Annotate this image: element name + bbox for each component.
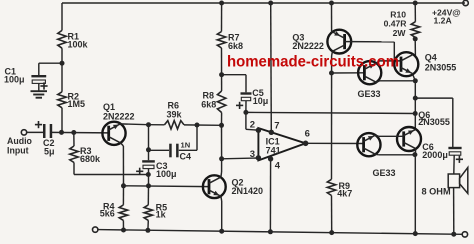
wire: C6 branch [415, 97, 453, 99]
junction: top rail / Q3 emitter [329, 1, 334, 6]
capacitor C3 [142, 160, 155, 162]
wire: Q7 upper lead to Q6 base [376, 135, 379, 136]
resistor R3 [70, 146, 78, 163]
wire: R8 to mid node [221, 113, 223, 126]
wire: input terminal to C2 [27, 131, 43, 133]
junction: feedback node at pin2 branch [243, 110, 248, 115]
junction: C4 riser / mid wire [195, 123, 200, 128]
pin 2 dot of IC1 [256, 128, 261, 133]
junction: Q1 emitter / R4 / Q2 base wire [121, 183, 126, 188]
wire: output column segment [414, 81, 416, 129]
wire: R10 to Q4 collector [414, 39, 416, 57]
junction: rail / emitter column [413, 231, 418, 236]
wire: Q2 emitter to ground rail [220, 196, 223, 201]
wire: Q2 base wire [124, 185, 209, 188]
svg-text:100μ: 100μ [156, 169, 177, 179]
junction: C3 / R5 / Q2 base wire [146, 183, 151, 188]
svg-text:2W: 2W [393, 28, 407, 38]
svg-text:1.2A: 1.2A [434, 16, 452, 26]
svg-text:GE33: GE33 [358, 89, 381, 99]
svg-text:Audio: Audio [7, 136, 33, 146]
svg-text:7: 7 [274, 120, 279, 131]
wire: op-amp output to Q7 base [306, 142, 364, 144]
svg-text:680k: 680k [80, 154, 101, 164]
svg-text:5μ: 5μ [44, 147, 55, 157]
resistor R10 [411, 22, 419, 38]
wire: divider node to C5 [222, 74, 246, 76]
wire: ground bottom rail [98, 230, 462, 235]
wire: node to R4 [122, 186, 124, 205]
pin 3 dot of IC1 [256, 155, 261, 160]
wire: Q3 collector down to R9 column [331, 52, 334, 57]
capacitor C5 [241, 92, 252, 94]
svg-text:1M5: 1M5 [68, 99, 86, 109]
pin 4 dot of IC1 [268, 156, 273, 161]
junction: mid wire / R8 bottom [219, 123, 224, 128]
resistor R8 [217, 91, 225, 113]
wire: R3 bottom elbow [73, 163, 75, 175]
terminal: ground rail left [93, 227, 98, 232]
resistor R6 (horizontal) [165, 121, 185, 129]
svg-text:6k8: 6k8 [201, 99, 216, 109]
junction: rail / pin4 wire [268, 229, 273, 234]
capacitor C6 [448, 147, 461, 149]
junction: output column / C6 branch [413, 96, 418, 101]
wire: C2 to Q1 base [50, 131, 108, 134]
svg-text:2N2222: 2N2222 [103, 111, 135, 121]
wire: C1 top lead [38, 63, 40, 75]
wire: Q6 emitter to node [414, 149, 416, 154]
wire: C4 left lead [149, 149, 170, 151]
svg-text:4: 4 [275, 161, 281, 172]
wire: branch down to C4/C3 [148, 125, 150, 161]
junction: rail / R9 [329, 230, 334, 235]
transistor Q5 GE33 [358, 61, 381, 84]
junction: R3 / C3 node [146, 172, 151, 177]
capacitor C1 [31, 75, 46, 77]
wire: Q4 emitter to output column [413, 75, 415, 81]
polarity + of C2 [35, 124, 42, 126]
svg-text:Input: Input [7, 146, 29, 156]
wire: Q1 collector to mid node [121, 123, 149, 126]
capacitor C2 (series) [43, 124, 46, 138]
junction: top rail / R7 [219, 1, 224, 6]
svg-text:6: 6 [305, 129, 310, 140]
junction: output column / feedback wire [413, 111, 418, 116]
junction: mid wire / C3-C4 branch [146, 122, 151, 127]
wire: +24V top supply rail [62, 2, 465, 4]
terminal: ground rail right [462, 232, 467, 237]
svg-text:100k: 100k [68, 40, 89, 50]
speaker 8 OHM [448, 174, 459, 188]
wire: pin 7 to top rail [270, 3, 273, 132]
svg-text:GE33: GE33 [373, 168, 396, 178]
wire: pin2 drop [245, 112, 247, 129]
junction: Q6/Q7 emitter node [412, 152, 417, 157]
wire: R7 to divider node [221, 48, 223, 91]
capacitor C4 (series) [169, 144, 172, 158]
svg-text:4k7: 4k7 [337, 189, 352, 199]
svg-text:3: 3 [250, 149, 255, 160]
wire: Q5 base wire [332, 72, 365, 74]
wire: C1 to ground [38, 83, 40, 91]
wire: Q1 emitter down [121, 143, 124, 146]
wire: node A to C1 [39, 62, 62, 64]
wire: Q5 upper lead to Q4 base [376, 61, 379, 63]
svg-text:741: 741 [266, 146, 281, 156]
junction: rail / R4 [121, 228, 126, 233]
wire: R5 to ground rail [147, 220, 149, 230]
junction: rail / Q2 emitter [219, 229, 224, 234]
junction: C4 left branch [146, 147, 151, 152]
wire: Q3 base to Q4 base column [351, 41, 394, 43]
svg-text:6k8: 6k8 [228, 41, 243, 51]
wire: C6 to speaker [453, 155, 455, 174]
wire: feedback from output node to pin2 node [246, 112, 415, 113]
wire: top rail to R1 [61, 3, 63, 30]
wire: Q2 collector up to pin3 wire [220, 172, 223, 177]
terminal: +24V supply terminal [463, 0, 468, 5]
resistor R1 [58, 30, 66, 48]
wire: speaker to ground rail [453, 188, 455, 235]
transistor Q4 2N3055 [394, 52, 418, 76]
svg-text:1k: 1k [156, 209, 167, 219]
transistor Q2 2N1420 [203, 175, 226, 198]
svg-text:39k: 39k [167, 109, 183, 119]
polarity + of C1 [40, 85, 47, 87]
junction: Q4 emitter / Q5 lower lead [413, 78, 418, 83]
transistor Q3 2N2222 (mirrored) [327, 30, 351, 54]
wire: R2 to input node [61, 108, 63, 133]
polarity + of C6 [456, 158, 463, 160]
wire: pin 4 to ground rail [269, 159, 271, 232]
svg-text:10μ: 10μ [253, 96, 269, 106]
resistor R2 [58, 92, 66, 108]
svg-text:2N3055: 2N3055 [418, 117, 450, 127]
svg-text:2N3055: 2N3055 [425, 62, 457, 72]
svg-text:0.47R: 0.47R [384, 18, 408, 28]
wire: R6 to C4 right riser [184, 124, 222, 126]
wire: IC1 pin 3 input wire [222, 157, 259, 160]
wire: C5 bottom to feedback node [245, 101, 247, 112]
svg-text:5k6: 5k6 [100, 209, 115, 219]
junction: node A (R1/R2/C1) [60, 61, 65, 66]
wire: R9 to ground rail [331, 196, 333, 233]
wire: top rail to R7 [221, 3, 223, 32]
polarity + of C3 [136, 170, 143, 172]
junction: Q3 column / Q5 base [329, 71, 334, 76]
pin 7 dot of IC1 [269, 130, 274, 135]
junction: top rail / R10 [413, 1, 418, 6]
resistor R7 [217, 32, 225, 49]
ground symbol below C1 [31, 90, 48, 92]
resistor R9 [327, 179, 335, 195]
wire: Q3 emitter to top rail [331, 3, 333, 33]
wire: input node down to R3 [73, 133, 75, 147]
wire: emitter node to ground rail [414, 155, 416, 234]
transistor Q1 2N2222 [102, 122, 125, 145]
svg-text:C4: C4 [180, 151, 192, 161]
junction: R10 bottom / Q4 collector [413, 36, 418, 41]
junction: top rail / IC1 pin7 wire [268, 1, 273, 6]
svg-text:1N: 1N [181, 140, 191, 149]
junction: rail / R5 [145, 228, 150, 233]
svg-text:2N2222: 2N2222 [292, 41, 324, 51]
svg-text:2000μ: 2000μ [422, 150, 448, 160]
svg-text:8 OHM: 8 OHM [422, 186, 451, 196]
svg-text:100μ: 100μ [4, 74, 25, 84]
resistor R4 [119, 205, 127, 221]
wire: C4 right lead and riser [179, 149, 197, 151]
wire: Q7 lower lead to emitter node [376, 153, 379, 156]
junction: rail / speaker [451, 232, 456, 237]
svg-text:homemade-circuits.com: homemade-circuits.com [227, 53, 399, 70]
transistor Q7 GE33 [357, 133, 380, 156]
wire: R1 to node A [61, 48, 63, 92]
op-amp IC1 741 triangle [258, 128, 305, 160]
junction: pin3 wire / Q2 collector [219, 156, 224, 161]
terminal: audio input [21, 130, 26, 135]
resistor R5 [144, 205, 152, 221]
wire: mid node down to pin3 wire [221, 125, 223, 159]
wire: node to R5 [147, 186, 149, 205]
svg-text:2: 2 [250, 120, 255, 131]
junction: R3 / input wire [71, 130, 76, 135]
wire: C3 bottom to Q2 base rail [148, 169, 150, 186]
svg-text:Q4: Q4 [425, 53, 437, 63]
polarity + of C5 [236, 104, 243, 106]
wire: Q5 lower lead to output column [376, 81, 379, 83]
junction: divider node (C5 tap) [219, 72, 224, 77]
junction: R2 / input wire [59, 130, 64, 135]
transistor Q6 2N3055 [397, 127, 421, 151]
wire: R4 to ground rail [122, 220, 124, 230]
pin 6 output dot of IC1 [303, 141, 309, 147]
svg-text:2N1420: 2N1420 [232, 186, 264, 196]
wire: top rail to R10 [414, 3, 416, 22]
